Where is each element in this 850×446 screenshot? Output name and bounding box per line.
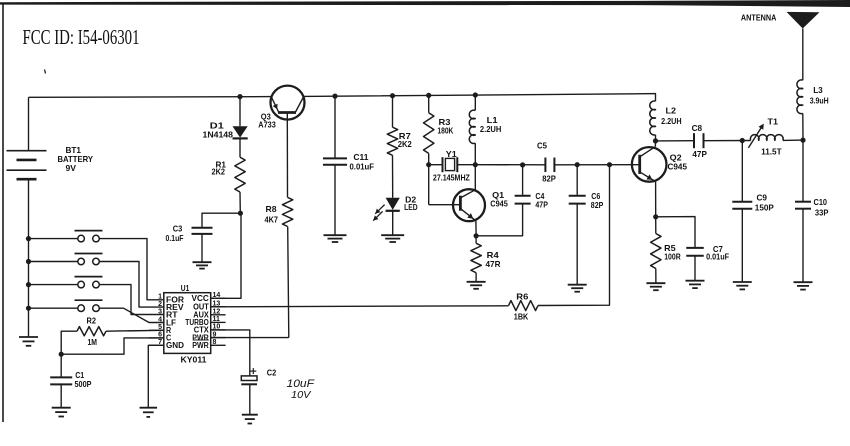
svg-text:500P: 500P (75, 379, 92, 389)
svg-text:PWR: PWR (192, 341, 209, 350)
svg-text:C9: C9 (757, 193, 768, 203)
svg-text:5: 5 (158, 324, 162, 331)
svg-text:33P: 33P (815, 207, 829, 217)
svg-text:0.1uF: 0.1uF (166, 233, 184, 243)
svg-text:ANTENNA: ANTENNA (741, 13, 777, 23)
svg-text:C3: C3 (173, 224, 183, 234)
svg-text:1: 1 (158, 294, 162, 301)
svg-text:3.9uH: 3.9uH (810, 95, 829, 105)
svg-text:1BK: 1BK (514, 312, 529, 322)
svg-text:8: 8 (213, 339, 217, 346)
svg-text:10uF: 10uF (287, 378, 316, 390)
svg-text:R2: R2 (87, 315, 97, 325)
svg-text:180K: 180K (437, 125, 454, 135)
svg-text:GND: GND (166, 341, 184, 350)
svg-text:C8: C8 (692, 123, 703, 133)
svg-text:FCC ID: I54-06301: FCC ID: I54-06301 (23, 25, 140, 49)
svg-text:2.2UH: 2.2UH (480, 124, 502, 134)
svg-text:82P: 82P (591, 200, 604, 210)
svg-text:2K2: 2K2 (398, 139, 412, 149)
svg-text:100R: 100R (664, 252, 681, 262)
svg-text:C11: C11 (353, 152, 368, 162)
svg-text:L3: L3 (813, 85, 823, 95)
svg-text:C5: C5 (537, 141, 547, 151)
svg-text:C2: C2 (267, 368, 277, 378)
svg-text:T1: T1 (768, 117, 779, 127)
svg-text:47P: 47P (692, 149, 707, 159)
svg-text:R6: R6 (516, 291, 528, 301)
svg-text:150P: 150P (755, 203, 774, 213)
svg-text:2.2UH: 2.2UH (661, 116, 682, 126)
svg-text:2: 2 (158, 301, 162, 308)
svg-text:4: 4 (158, 316, 162, 323)
svg-text:11.5T: 11.5T (761, 146, 782, 156)
svg-text:47R: 47R (486, 259, 501, 269)
svg-text:10V: 10V (291, 389, 312, 401)
svg-text:U1: U1 (181, 283, 190, 293)
svg-text:4K7: 4K7 (265, 214, 279, 224)
svg-text:1M: 1M (88, 337, 98, 347)
svg-text:12: 12 (213, 309, 221, 316)
svg-text:82P: 82P (542, 174, 556, 184)
svg-text:Y1: Y1 (446, 149, 457, 159)
svg-text:R8: R8 (266, 204, 277, 214)
svg-text:2K2: 2K2 (212, 167, 226, 177)
svg-text:47P: 47P (535, 200, 548, 210)
svg-text:LED: LED (404, 202, 418, 212)
svg-text:0.01uF: 0.01uF (350, 162, 375, 172)
svg-text:0.01uF: 0.01uF (706, 252, 729, 262)
svg-text:A733: A733 (258, 120, 276, 130)
svg-text:KY011: KY011 (181, 355, 207, 365)
svg-text:9V: 9V (66, 163, 77, 173)
svg-text:27.145MHZ: 27.145MHZ (433, 173, 470, 183)
svg-text:C10: C10 (814, 197, 828, 207)
svg-text:C945: C945 (490, 199, 508, 209)
svg-text:6: 6 (158, 332, 162, 339)
svg-text:3: 3 (158, 308, 162, 315)
svg-text:L2: L2 (666, 106, 677, 116)
svg-text:1N4148: 1N4148 (203, 130, 234, 140)
svg-text:C945: C945 (668, 162, 688, 172)
svg-text:11: 11 (213, 316, 221, 323)
